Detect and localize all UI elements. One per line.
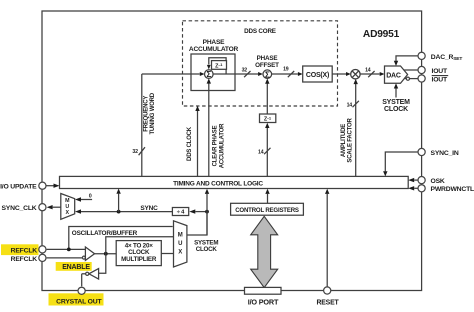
svg-text:SYNC: SYNC — [140, 205, 158, 212]
svg-text:SYNC_IN: SYNC_IN — [431, 150, 459, 157]
svg-text:0: 0 — [89, 194, 92, 200]
svg-text:32: 32 — [242, 67, 248, 73]
svg-text:M: M — [178, 233, 183, 239]
svg-text:REFCLK: REFCLK — [11, 247, 38, 254]
svg-text:SCALE FACTOR: SCALE FACTOR — [348, 118, 354, 163]
svg-text:OSCILLATOR/BUFFER: OSCILLATOR/BUFFER — [72, 230, 138, 237]
svg-text:COS(X): COS(X) — [306, 72, 329, 79]
svg-text:I/O PORT: I/O PORT — [248, 298, 279, 307]
svg-text:DAC_RSET: DAC_RSET — [431, 54, 463, 62]
svg-text:TUNING WORD: TUNING WORD — [150, 92, 156, 134]
svg-text:14: 14 — [365, 68, 371, 74]
svg-text:MULTIPLIER: MULTIPLIER — [121, 256, 157, 263]
svg-text:SYNC_CLK: SYNC_CLK — [1, 205, 36, 212]
svg-text:Σ: Σ — [206, 70, 211, 79]
svg-text:ENABLE: ENABLE — [62, 264, 90, 271]
svg-text:Σ: Σ — [265, 70, 270, 79]
svg-text:OSK: OSK — [431, 178, 445, 185]
svg-text:DDS CORE: DDS CORE — [244, 28, 276, 35]
svg-text:X: X — [178, 250, 182, 256]
svg-text:CLOCK: CLOCK — [384, 106, 408, 113]
svg-text:RESET: RESET — [317, 300, 340, 307]
svg-text:OFFSET: OFFSET — [255, 62, 279, 69]
svg-text:14: 14 — [347, 103, 353, 109]
svg-text:AD9951: AD9951 — [363, 29, 400, 40]
svg-text:CONTROL REGISTERS: CONTROL REGISTERS — [235, 207, 299, 214]
svg-text:REFCLK: REFCLK — [11, 256, 38, 263]
svg-text:CLOCK: CLOCK — [196, 246, 218, 253]
svg-text:ACCUMULATOR: ACCUMULATOR — [220, 123, 226, 168]
svg-text:TIMING AND CONTROL LOGIC: TIMING AND CONTROL LOGIC — [173, 180, 263, 187]
svg-text:14: 14 — [258, 150, 264, 156]
svg-text:IOUT: IOUT — [432, 77, 448, 84]
svg-text:32: 32 — [132, 149, 138, 155]
svg-text:IOUT: IOUT — [432, 68, 448, 75]
svg-text:ACCUMULATOR: ACCUMULATOR — [189, 46, 239, 53]
svg-text:AMPLITUDE: AMPLITUDE — [341, 124, 347, 157]
svg-text:CLEAR PHASE: CLEAR PHASE — [213, 125, 219, 166]
svg-text:19: 19 — [283, 66, 289, 72]
svg-text:FREQUENCY: FREQUENCY — [144, 96, 150, 132]
svg-text:U: U — [178, 241, 182, 247]
svg-text:I/O UPDATE: I/O UPDATE — [0, 183, 37, 190]
svg-text:PWRDWNCTL: PWRDWNCTL — [431, 186, 474, 193]
svg-text:CRYSTAL OUT: CRYSTAL OUT — [56, 298, 102, 305]
svg-text:DDS CLOCK: DDS CLOCK — [187, 126, 193, 161]
svg-text:÷ 4: ÷ 4 — [177, 210, 185, 216]
svg-text:DAC: DAC — [386, 72, 401, 79]
